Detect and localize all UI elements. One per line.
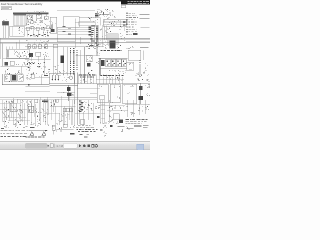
marks x145 y104 [144, 104, 149, 112]
relay box K3 [128, 50, 140, 60]
cluster x35 y115 [37, 115, 46, 122]
harness lines right [76, 22, 96, 25]
terminal block TB1 [10, 26, 24, 36]
hline under J1 [3, 58, 29, 60]
scan header bar [0, 0, 150, 2]
hline y113 mid [75, 112, 100, 114]
bus taps [29, 42, 46, 45]
right short line [126, 28, 150, 42]
ignition cluster [25, 52, 51, 76]
line with tap [35, 75, 50, 86]
note dash mid [30, 124, 49, 128]
note line L4 [0, 132, 27, 135]
note line L2 [1, 128, 4, 129]
page label [56, 144, 64, 148]
lower box left [17, 99, 33, 103]
taps above J1 [7, 40, 20, 50]
note line L1 [4, 125, 28, 128]
inline component W5 [53, 44, 58, 47]
schematic title [1, 2, 43, 6]
pin column CN4 [71, 48, 74, 76]
vertical harness [54, 47, 68, 76]
transformer T1 [2, 20, 9, 26]
diode D1 cluster [4, 61, 29, 67]
cluster x93 y104 [95, 105, 100, 109]
legend bullets [126, 13, 138, 35]
component row right [87, 44, 101, 49]
warning triangle 1 [30, 132, 34, 136]
vline x83.5 [83, 112, 85, 125]
page icon [50, 144, 53, 148]
power distribution block [99, 50, 128, 76]
connector CN1 header [13, 13, 48, 16]
box x113 y114 [113, 114, 119, 120]
note text mid [26, 136, 45, 139]
box x31 y75 [31, 75, 35, 78]
bottom text row left [4, 119, 23, 125]
connector CN2 [88, 13, 98, 22]
vlines right x127-146 [128, 100, 146, 117]
note R label [103, 125, 107, 128]
right bus labels [126, 46, 148, 49]
filter box [108, 34, 118, 44]
hline y104.5 right [125, 104, 150, 106]
wire label column [90, 25, 98, 46]
solenoid group C [18, 75, 24, 81]
parts x26 y100 [27, 101, 32, 105]
label band far right [101, 75, 124, 81]
hline y82.8 right [75, 82, 150, 84]
marks row y122 [100, 122, 114, 124]
small caps row [31, 20, 43, 23]
sensor group [76, 47, 101, 83]
relay contacts [62, 108, 73, 118]
legend box [1, 7, 12, 10]
verticals mid-right [79, 100, 93, 125]
fuse block F1-F4 [27, 45, 48, 49]
lower-left parts [5, 66, 30, 75]
connector ladder [101, 100, 105, 124]
cluster x50 y100 [51, 100, 57, 105]
note marks x110 [110, 125, 113, 127]
title block (reversed) [121, 0, 150, 5]
arrow line second [26, 85, 50, 87]
specks right of U2 [120, 26, 125, 41]
vlines bottom mid [60, 113, 68, 125]
vline x13.5 [13, 100, 15, 125]
marks x55 y120 [56, 120, 65, 125]
window bottom edge [0, 149, 150, 151]
relay K1 [27, 15, 33, 19]
note arrow line [29, 130, 48, 132]
module U1 [50, 17, 56, 33]
label cluster above table [96, 9, 116, 20]
paper background [0, 0, 150, 150]
relay K2 [36, 15, 42, 19]
main bus 5 [25, 46, 104, 48]
hline y105 mid [100, 104, 125, 106]
hline y88 mid [77, 88, 100, 90]
hline y80 [96, 79, 124, 81]
note marks x126 y125 [127, 127, 130, 130]
pump box P3 [123, 84, 137, 103]
wire left rail [1, 38, 3, 66]
fuse row labels [26, 40, 49, 43]
wiring table [103, 20, 126, 27]
component labels row [26, 20, 49, 26]
web joints [13, 105, 48, 117]
svg-text:4wd Snowblower Serviceability: 4wd Snowblower Serviceability [1, 2, 43, 6]
pump box P2 [110, 84, 120, 103]
dark marks bottom right [136, 72, 144, 75]
small parts lower [54, 65, 67, 76]
vline x53.5 [53, 100, 55, 112]
marks x129 y112 [115, 106, 136, 115]
note line L5 [0, 135, 26, 138]
cluster x26 y75 [27, 75, 31, 80]
main bus 1 [0, 37, 150, 39]
hline y91 mid [25, 91, 50, 93]
bus under valve block [49, 84, 78, 86]
wire bus drops [30, 14, 46, 16]
dash x97 [97, 116, 100, 118]
value text block [76, 125, 98, 137]
wire T1 secondary [3, 25, 8, 38]
note box x63 [63, 125, 67, 128]
cluster x137 y105 [138, 106, 143, 111]
toolbar background [0, 141, 150, 150]
note squiggle [103, 131, 106, 137]
motor M1 [61, 55, 65, 62]
hline y110 mid [107, 109, 128, 111]
valve block with arrows [49, 73, 74, 83]
note parts x52 [53, 126, 57, 131]
zoom dropdown [25, 143, 47, 148]
note dash x118 [118, 125, 125, 127]
right rails [75, 19, 78, 105]
bus components [3, 99, 58, 103]
page input [63, 143, 77, 148]
hline y92.6 mid [57, 92, 75, 93]
download button [137, 144, 144, 150]
bottom right text rows [126, 119, 148, 124]
note part x52 [52, 125, 62, 134]
solenoid group A [4, 75, 10, 82]
warning triangle 2 [42, 132, 46, 136]
control network [25, 26, 51, 37]
arrow line main [2, 84, 49, 86]
legend dash lines [133, 14, 149, 35]
note marks x121 [121, 129, 123, 132]
bridge box [10, 103, 16, 112]
bottom marks x26 [30, 123, 40, 126]
note dash x143 [127, 126, 148, 129]
svg-text:1 / 18: 1 / 18 [56, 144, 64, 148]
lower-left parts 2 [3, 107, 9, 117]
label band right [79, 75, 96, 83]
enclosure box E1 [63, 17, 79, 27]
main bus 4 [0, 42, 104, 44]
note hline x57 [57, 128, 74, 130]
labels above bus [27, 10, 46, 12]
diag wire [2, 112, 7, 119]
vline x27.5 [27, 100, 29, 125]
pin strip right [140, 60, 148, 75]
lower bus left [0, 98, 97, 100]
vline x80 y37 [79, 37, 81, 44]
cluster x34 [35, 109, 41, 117]
wire W-top [79, 18, 100, 26]
hline 66 [1, 65, 30, 67]
right top marks [136, 74, 150, 84]
dark blob x119 y120 [116, 120, 123, 125]
label text above left comps [5, 73, 23, 75]
relay box K4 [126, 62, 134, 70]
bottom wiring verticals [0, 96, 73, 125]
main bus 2 [0, 39, 150, 41]
vlines above U2 [104, 26, 106, 40]
note dash x70 y133 [70, 133, 75, 134]
main bus 3 [0, 41, 150, 43]
box x80 y120 [80, 120, 84, 124]
pin column CN5 [76, 50, 78, 71]
lower wiring web [0, 100, 74, 125]
hline y93 right [90, 93, 97, 95]
vline 140 with blobs [138, 83, 143, 104]
labels below table [101, 27, 111, 33]
connector CN3 pins [58, 26, 91, 35]
dark box x28 [28, 106, 33, 112]
note line L3 [0, 129, 30, 132]
component chain left [79, 101, 83, 113]
marks left of U2 [101, 35, 108, 46]
junction stack [67, 85, 74, 101]
component chain [108, 100, 113, 123]
junction box J1 [6, 49, 29, 58]
pump box P1 [97, 84, 108, 103]
vline right [142, 50, 144, 60]
dense rows x76 y100 [79, 101, 93, 112]
bus B1 [13, 13, 48, 15]
wire left drop [1, 74, 3, 85]
vline x44.8 [45, 56, 50, 75]
switch S1 [44, 16, 48, 19]
dropdown caret [48, 145, 49, 146]
hline y106.5 [50, 106, 76, 108]
revision box [121, 5, 126, 7]
solenoid group B [11, 74, 16, 81]
toolbar divider [54, 144, 56, 148]
parts x17 [17, 110, 23, 120]
connector CN1 body [14, 15, 27, 25]
dash right [44, 75, 48, 76]
vline x6 [6, 101, 8, 121]
wire drops into boxes [79, 75, 123, 85]
toolbar icons [79, 144, 98, 147]
vline x77.5 [76, 100, 78, 125]
note dash x100 [100, 129, 103, 130]
far right marks [146, 85, 151, 96]
vtap 13 [12, 98, 14, 103]
note dash x134 [134, 125, 142, 127]
note marks x70 [70, 126, 75, 128]
dash x42 [42, 101, 48, 102]
wire pair x96 [96, 26, 98, 56]
wire across top [57, 10, 95, 12]
enclosure box E2 [57, 27, 75, 42]
label column rails [91, 25, 102, 47]
IC U2 [109, 40, 115, 48]
marks below U2 [105, 45, 121, 49]
